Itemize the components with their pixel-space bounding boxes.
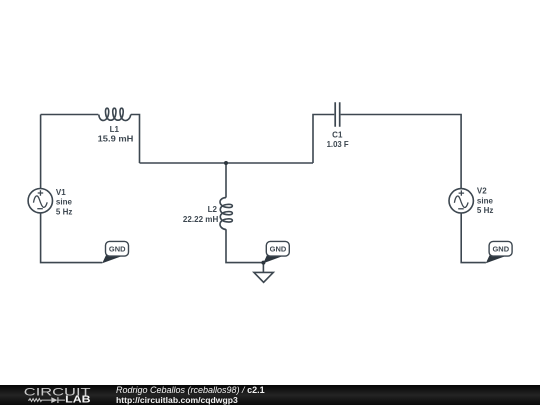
- svg-text:V2: V2: [477, 187, 487, 196]
- svg-text:L1: L1: [110, 125, 120, 134]
- svg-text:C1: C1: [332, 130, 343, 139]
- svg-text:V1: V1: [56, 188, 66, 197]
- svg-text:15.9 mH: 15.9 mH: [98, 134, 134, 144]
- svg-text:5 Hz: 5 Hz: [56, 207, 72, 216]
- svg-text:1.03 F: 1.03 F: [327, 139, 349, 149]
- svg-text:GND: GND: [109, 245, 126, 254]
- svg-text:GND: GND: [270, 245, 287, 254]
- svg-text:22.22 mH: 22.22 mH: [183, 214, 218, 224]
- svg-text:LAB: LAB: [65, 394, 90, 405]
- svg-text:L2: L2: [208, 205, 218, 214]
- svg-text:5 Hz: 5 Hz: [477, 206, 493, 215]
- svg-text:sine: sine: [56, 198, 73, 207]
- svg-text:sine: sine: [477, 196, 494, 205]
- svg-text:GND: GND: [493, 245, 510, 254]
